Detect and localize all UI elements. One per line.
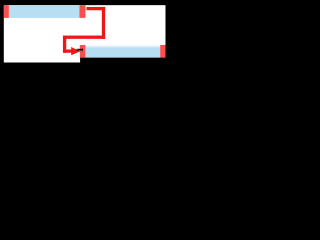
black mark <box>76 49 83 51</box>
black region under bottom bar <box>80 58 170 68</box>
bottom bar left red cap <box>80 45 86 58</box>
top bar blue body <box>9 5 80 18</box>
wire V1 <box>102 7 105 39</box>
content area <box>4 5 166 62</box>
wire H3 <box>63 50 72 53</box>
wire V2 <box>63 36 66 53</box>
bottom bar right red cap <box>160 45 165 58</box>
bottom bar blue body <box>85 45 160 58</box>
arrowhead <box>71 47 80 55</box>
top bar left red cap <box>4 5 9 18</box>
wire H1 <box>87 7 106 10</box>
frame <box>0 0 170 68</box>
wire H2 <box>63 36 105 39</box>
top bar right red cap <box>80 5 86 18</box>
